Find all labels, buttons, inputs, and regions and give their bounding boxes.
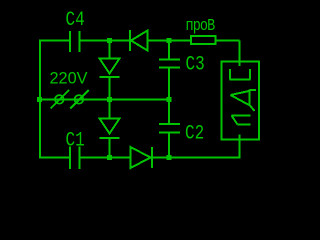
svg-text:C4: C4 bbox=[66, 9, 85, 31]
svg-text:C3: C3 bbox=[186, 54, 205, 76]
connector pin X2 circle bbox=[75, 95, 84, 104]
connector pin X1 slash bbox=[51, 90, 70, 109]
wire bottom-right horizontal bbox=[168, 157, 241, 159]
node E junction bbox=[167, 97, 172, 102]
connector pin X1 circle bbox=[55, 95, 64, 104]
wire resistor to lamp top bbox=[217, 41, 240, 67]
diode VD1 (top, pointing left) bbox=[130, 30, 148, 51]
wire C4 to node A bbox=[81, 40, 130, 42]
wire bottom-left horizontal bbox=[39, 157, 70, 159]
wire VD3 to node D bbox=[109, 78, 111, 99]
connector pin X2 slash bbox=[70, 90, 89, 109]
wire top-left horizontal bbox=[39, 40, 69, 42]
wire node B down bbox=[168, 41, 170, 59]
wire lamp bottom pin bbox=[239, 135, 241, 159]
node C junction bbox=[37, 97, 42, 102]
lamp label glyph D (rotated) bbox=[231, 90, 257, 112]
capacitor C4 bbox=[70, 31, 80, 52]
wire node D down bbox=[109, 100, 111, 118]
wire node E down bbox=[168, 100, 170, 124]
wire middle horizontal (mains) bbox=[39, 99, 169, 101]
svg-text:C1: C1 bbox=[66, 130, 85, 152]
wire VD1 to node B bbox=[149, 40, 191, 42]
node A junction bbox=[107, 38, 112, 43]
capacitor C1 bbox=[70, 147, 80, 170]
capacitor C2 bbox=[159, 124, 180, 133]
node B junction bbox=[167, 38, 172, 43]
svg-text:C2: C2 bbox=[185, 123, 204, 145]
wire C2 to node G bbox=[168, 133, 170, 158]
svg-text:220V: 220V bbox=[50, 70, 88, 88]
diode VD3 (vertical upper, pointing down) bbox=[100, 59, 120, 78]
node F junction bbox=[107, 155, 112, 160]
wire C3 to node E bbox=[168, 69, 170, 100]
lamp label glyph C (rotated) bbox=[230, 69, 251, 80]
wire VD2 to node G bbox=[153, 157, 168, 159]
diode VD2 (bottom, pointing right) bbox=[131, 147, 153, 168]
diode VD4 (vertical lower, pointing down) bbox=[100, 119, 120, 139]
wire left rail bbox=[39, 40, 41, 159]
wire C1 to node F bbox=[81, 157, 132, 159]
lamp EL1 box bbox=[222, 62, 260, 140]
node D junction bbox=[107, 97, 112, 102]
resistor R1 (npoB) bbox=[191, 36, 216, 44]
lamp label glyph L (rotated) bbox=[232, 116, 251, 125]
wire node A down bbox=[109, 41, 111, 58]
capacitor C3 bbox=[159, 60, 180, 68]
node G junction bbox=[167, 155, 172, 160]
svg-text:проВ: проВ bbox=[186, 18, 216, 35]
wire VD4 to node F bbox=[109, 139, 111, 158]
